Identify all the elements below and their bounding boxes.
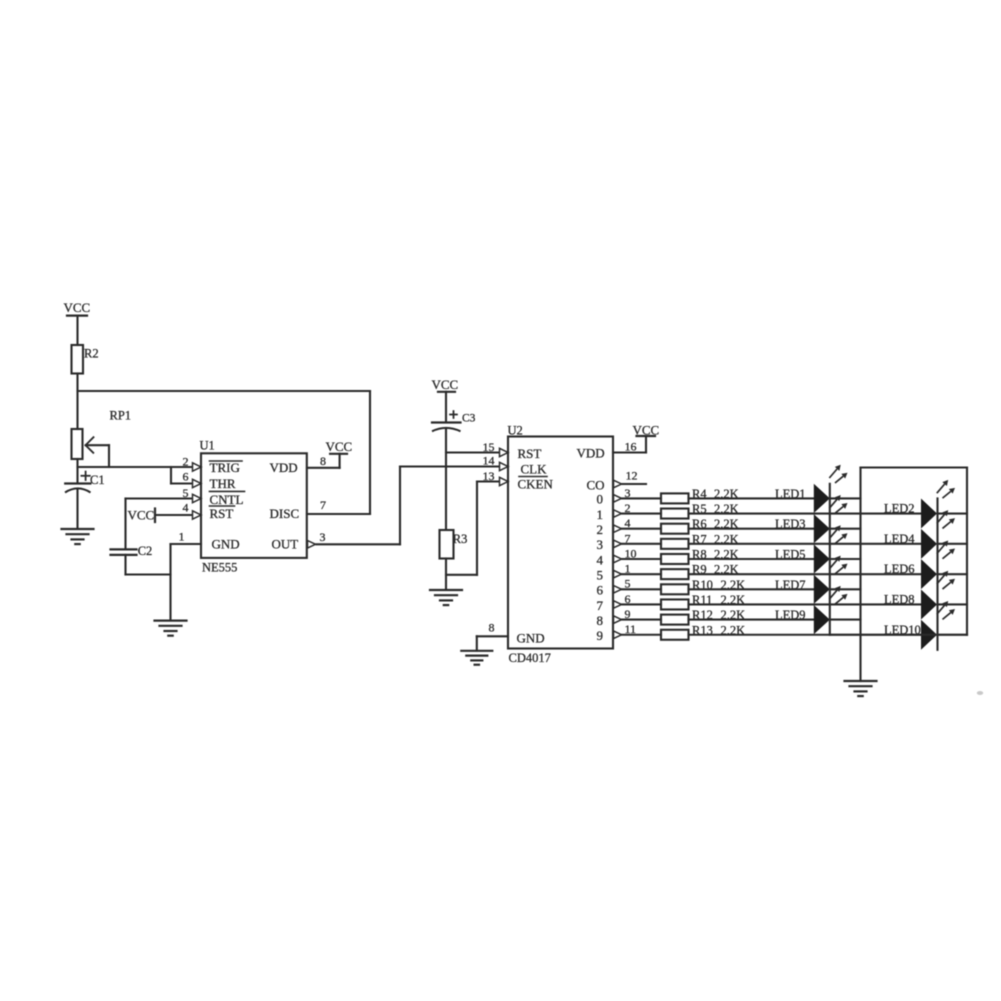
- wire RST pin 15: [446, 451, 508, 453]
- resistor R10: [661, 584, 689, 594]
- svg-text:R2: R2: [84, 347, 99, 361]
- wire R3 to ground: [445, 559, 447, 590]
- potentiometer RP1: [72, 429, 83, 459]
- LED3 light arrows: [829, 499, 837, 508]
- svg-text:LED9: LED9: [775, 608, 806, 622]
- svg-text:R3: R3: [453, 532, 468, 546]
- LED LED3 diode: [814, 514, 830, 543]
- LED8 light arrows: [937, 575, 945, 584]
- even LED cathode bar: [936, 498, 938, 649]
- wire THR branch: [170, 467, 172, 484]
- LED LED6 diode: [921, 559, 937, 589]
- wire output 9 to resistor R13: [622, 634, 662, 636]
- wire resistor to LED1: [689, 497, 814, 499]
- svg-text:0: 0: [597, 492, 604, 507]
- svg-text:6: 6: [183, 470, 189, 484]
- wire output 3 to resistor R7: [622, 543, 662, 545]
- LED7 light arrows: [829, 560, 837, 569]
- wire resistor to LED10: [689, 634, 922, 636]
- resistor R8: [661, 554, 689, 564]
- LED10 light arrows: [937, 605, 945, 614]
- svg-text:2: 2: [625, 501, 631, 515]
- svg-text:CLK: CLK: [521, 462, 548, 477]
- resistor R3: [440, 530, 454, 559]
- pin 4 arrow: [193, 511, 202, 519]
- pin 13 arrow: [500, 477, 509, 485]
- LED LED5 diode: [814, 544, 830, 573]
- ground (CD4017): [461, 650, 492, 652]
- LED LED2 diode: [921, 499, 937, 529]
- resistor R2: [72, 345, 84, 374]
- svg-text:VCC: VCC: [128, 508, 155, 523]
- capacitor C2: [111, 548, 137, 550]
- svg-text:14: 14: [483, 454, 495, 468]
- wire LED3 cathode to frame: [830, 528, 861, 530]
- wire output 2 to resistor R6: [622, 528, 662, 530]
- resistor R6: [661, 524, 689, 534]
- wire output 7 to resistor R11: [622, 603, 662, 605]
- wire R2 to RP1: [76, 374, 78, 430]
- svg-text:C3: C3: [462, 413, 476, 425]
- svg-text:CO: CO: [587, 478, 605, 493]
- wire GND pin 1: [171, 543, 202, 545]
- wire GND pin 8: [477, 635, 508, 637]
- wire DISC pin 7: [307, 513, 370, 515]
- resistor R13: [661, 630, 689, 640]
- svg-text:THR: THR: [210, 476, 236, 491]
- ground (C1): [62, 528, 94, 530]
- LED6 light arrows: [937, 545, 945, 554]
- ground (NE555): [155, 619, 187, 621]
- LED LED1 diode: [814, 484, 830, 513]
- wire TRIG net: [78, 466, 194, 468]
- svg-text:CKEN: CKEN: [518, 477, 554, 492]
- wire resistor to LED6: [689, 573, 922, 575]
- svg-text:RST: RST: [518, 446, 542, 461]
- svg-text:6: 6: [625, 592, 631, 606]
- LED4 light arrows: [937, 514, 945, 523]
- wire output 4 to resistor R8: [622, 558, 662, 560]
- resistor R7: [661, 539, 689, 549]
- svg-text:1: 1: [179, 530, 185, 544]
- svg-text:LED2: LED2: [884, 502, 915, 516]
- wire LED5 cathode to frame: [830, 558, 861, 560]
- svg-text:13: 13: [483, 469, 495, 483]
- svg-text:8: 8: [320, 454, 326, 468]
- svg-text:7: 7: [597, 598, 604, 613]
- wire resistor to LED2: [689, 512, 922, 514]
- svg-text:2: 2: [597, 522, 604, 537]
- svg-text:1: 1: [625, 562, 631, 576]
- LED5 light arrows: [829, 529, 837, 538]
- svg-text:LED7: LED7: [775, 578, 806, 592]
- svg-text:5: 5: [625, 577, 631, 591]
- svg-text:GND: GND: [212, 537, 240, 552]
- resistor R11: [661, 599, 689, 609]
- wire CKEN to ground net: [446, 574, 477, 576]
- pin 6 arrow: [193, 479, 202, 487]
- wire OUT to CLK: [317, 543, 401, 545]
- svg-text:GND: GND: [517, 631, 545, 646]
- pin 12 CO arrow and wire: [622, 483, 647, 485]
- wire RP1 bottom to C1: [76, 459, 78, 483]
- svg-text:LED1: LED1: [775, 487, 806, 501]
- ground (R3): [430, 589, 462, 591]
- svg-text:VCC: VCC: [326, 439, 353, 454]
- wire VDD pin 8: [307, 467, 340, 469]
- svg-text:3: 3: [320, 530, 326, 544]
- resistor R5: [661, 509, 689, 519]
- wire LED2 cathode to frame: [938, 512, 968, 514]
- LED LED10 diode: [921, 620, 937, 650]
- wire resistor to LED9: [689, 619, 814, 621]
- RP1 wiper arrow: [86, 437, 94, 445]
- resistor R4: [661, 493, 689, 503]
- wire output 8 to resistor R12: [622, 619, 662, 621]
- svg-text:C1: C1: [90, 473, 105, 487]
- svg-text:CD4017: CD4017: [509, 651, 551, 665]
- odd LED cathode bus: [829, 484, 831, 635]
- wire C3 to R3: [445, 429, 447, 530]
- svg-text:7: 7: [625, 531, 631, 545]
- svg-text:7: 7: [320, 498, 326, 512]
- wire output 5 to resistor R9: [622, 573, 662, 575]
- svg-text:3: 3: [597, 537, 604, 552]
- pin 2 arrow: [193, 463, 202, 471]
- svg-text:C2: C2: [138, 544, 153, 558]
- svg-text:4: 4: [625, 516, 631, 530]
- wire resistor to LED3: [689, 528, 814, 530]
- svg-text:OUT: OUT: [272, 537, 299, 552]
- wire VCC to R2: [76, 316, 78, 345]
- svg-text:6: 6: [597, 583, 604, 598]
- wire resistor to LED8: [689, 603, 922, 605]
- wire resistor to LED7: [689, 588, 814, 590]
- svg-text:15: 15: [483, 440, 495, 454]
- wire LED9 cathode to frame: [830, 619, 861, 621]
- svg-text:TRIG: TRIG: [210, 460, 240, 475]
- resistor R12: [661, 615, 689, 625]
- LED LED7 diode: [814, 575, 830, 604]
- LED1 light arrows: [829, 469, 837, 478]
- wire LED10 cathode to frame: [938, 634, 968, 636]
- svg-text:8: 8: [597, 613, 604, 628]
- wire output 0 to resistor R4: [622, 497, 662, 499]
- svg-text:LED5: LED5: [775, 548, 806, 562]
- LED9 light arrows: [829, 590, 837, 599]
- svg-text:5: 5: [597, 567, 604, 582]
- pin 15 arrow: [500, 448, 509, 456]
- wire CNTL to C2: [126, 497, 194, 499]
- wire frame to ground: [859, 635, 861, 681]
- resistor R9: [661, 569, 689, 579]
- svg-text:RST: RST: [210, 506, 234, 521]
- svg-text:U2: U2: [508, 424, 523, 438]
- wire LED4 cathode to frame: [938, 543, 968, 545]
- svg-text:NE555: NE555: [202, 561, 237, 575]
- svg-text:U1: U1: [200, 439, 215, 453]
- wire VDD pin 16: [613, 451, 646, 453]
- svg-text:VCC: VCC: [64, 300, 91, 315]
- svg-text:11: 11: [625, 622, 637, 636]
- pin 5 arrow: [193, 494, 202, 502]
- wire VCC to RST: [155, 514, 194, 516]
- svg-text:4: 4: [183, 501, 189, 515]
- svg-text:3: 3: [625, 486, 631, 500]
- svg-text:CNTL: CNTL: [210, 492, 244, 507]
- op-amp U1 NE555 box: [201, 453, 307, 558]
- svg-text:LED6: LED6: [884, 562, 915, 576]
- svg-text:1: 1: [597, 507, 604, 522]
- capacitor C1: [81, 475, 89, 477]
- svg-text:4: 4: [597, 552, 604, 567]
- svg-text:12: 12: [626, 469, 638, 483]
- svg-text:9: 9: [597, 628, 604, 643]
- wire LED7 cathode to frame: [830, 588, 861, 590]
- wire LED8 cathode to frame: [938, 603, 968, 605]
- LED LED8 diode: [921, 589, 937, 619]
- svg-text:16: 16: [625, 440, 637, 454]
- wire output 1 to resistor R5: [622, 512, 662, 514]
- wire VCC to C3: [445, 392, 447, 422]
- svg-text:DISC: DISC: [270, 506, 300, 521]
- LED2 light arrows: [937, 484, 945, 493]
- svg-text:10: 10: [625, 546, 637, 560]
- svg-text:VDD: VDD: [270, 460, 298, 475]
- svg-text:5: 5: [183, 486, 189, 500]
- svg-text:VDD: VDD: [577, 446, 605, 461]
- svg-text:VCC: VCC: [432, 377, 459, 392]
- pin 14 arrow: [500, 462, 509, 470]
- svg-text:8: 8: [489, 620, 495, 634]
- wire C1 to ground: [76, 490, 78, 529]
- wire R2/RP1 junction to DISC vertical: [78, 390, 371, 392]
- svg-text:RP1: RP1: [110, 409, 132, 423]
- IC U2 CD4017 box: [508, 437, 613, 649]
- LED LED9 diode: [814, 605, 830, 634]
- svg-text:2: 2: [183, 455, 189, 469]
- svg-text:9: 9: [625, 607, 631, 621]
- cathode frame box: [861, 466, 968, 468]
- svg-text:LED4: LED4: [884, 532, 915, 546]
- LED LED4 diode: [921, 529, 937, 559]
- wire output 6 to resistor R10: [622, 588, 662, 590]
- wire LED6 cathode to frame: [938, 573, 968, 575]
- wire resistor to LED4: [689, 543, 922, 545]
- capacitor C3: [450, 414, 457, 416]
- wire LED1 cathode to frame: [830, 497, 861, 499]
- svg-text:LED3: LED3: [775, 517, 806, 531]
- wire resistor to LED5: [689, 558, 814, 560]
- svg-text:LED8: LED8: [884, 592, 915, 606]
- wire C2 to ground net: [124, 555, 126, 575]
- ground (LED frame): [845, 680, 877, 682]
